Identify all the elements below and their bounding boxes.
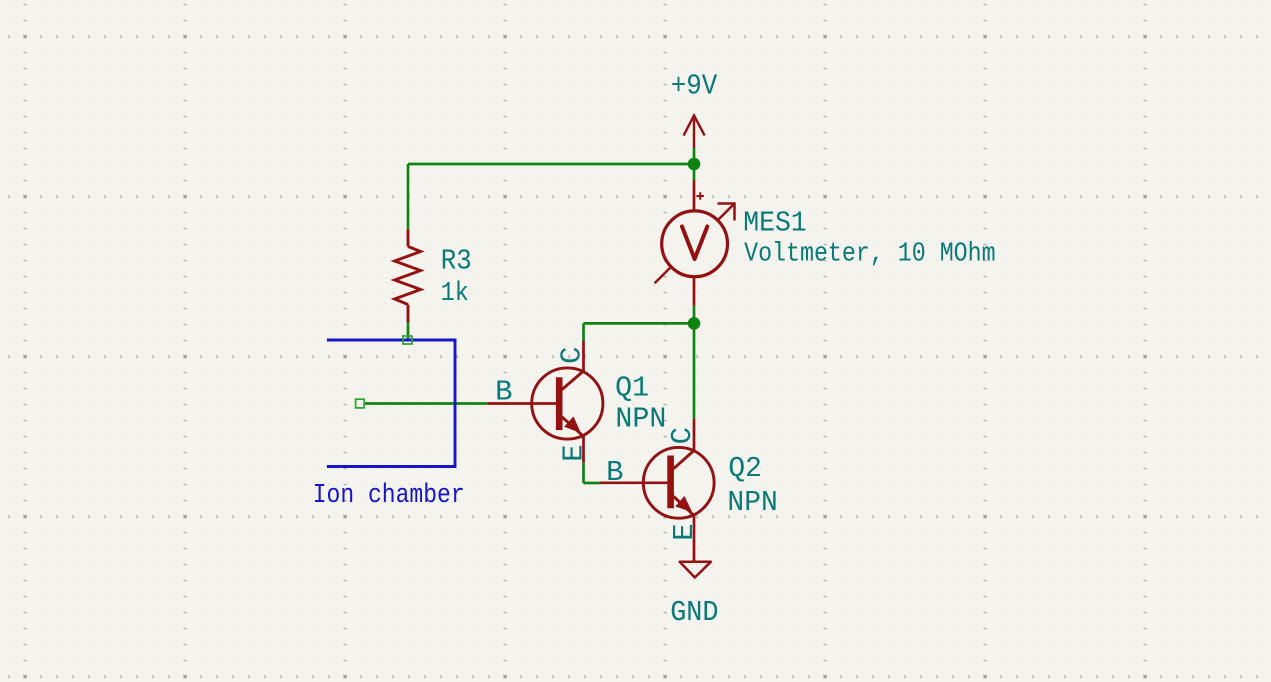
ion chamber graphic — [327, 340, 455, 467]
svg-text:1k: 1k — [441, 279, 469, 309]
svg-text:E: E — [668, 523, 701, 540]
wire Q1 collector up — [582, 323, 585, 341]
wire +9V to voltmeter — [693, 148, 696, 180]
wire Q1 collector horizontal — [584, 322, 695, 325]
svg-text:Q2: Q2 — [728, 452, 762, 485]
wire ion chamber to Q1 base — [364, 402, 487, 405]
wire voltmeter to Q2 collector — [693, 306, 696, 419]
voltmeter MES1 — [655, 180, 735, 306]
svg-text:Q1: Q1 — [615, 372, 649, 405]
svg-text:GND: GND — [670, 596, 718, 629]
wire Q1 emitter to Q2 base — [584, 482, 600, 485]
wire R3 to ion chamber — [407, 322, 410, 339]
svg-text:B: B — [495, 375, 512, 408]
power +9V — [684, 116, 705, 149]
ground symbol — [680, 562, 711, 578]
svg-text:MES1: MES1 — [743, 207, 807, 240]
wire to R3 — [407, 164, 410, 229]
wire Q1 emitter down — [582, 463, 585, 483]
svg-text:C: C — [555, 346, 588, 363]
svg-text:Voltmeter, 10 MOhm: Voltmeter, 10 MOhm — [744, 239, 996, 269]
svg-text:C: C — [666, 427, 699, 444]
resistor R3 — [395, 229, 421, 322]
transistor Q1 — [488, 341, 603, 463]
svg-text:R3: R3 — [441, 245, 472, 278]
transistor Q2 — [600, 419, 715, 562]
junction middle — [688, 317, 701, 330]
svg-text:Ion chamber: Ion chamber — [313, 481, 465, 511]
svg-text:+9V: +9V — [671, 70, 718, 103]
svg-text:NPN: NPN — [615, 403, 666, 436]
svg-text:NPN: NPN — [727, 486, 777, 519]
wire horizontal top — [408, 163, 694, 166]
dangling end square base wire — [356, 399, 365, 408]
svg-text:B: B — [606, 456, 623, 489]
dangling end square R3 — [403, 336, 412, 344]
svg-text:E: E — [558, 444, 591, 461]
junction top — [688, 158, 701, 171]
